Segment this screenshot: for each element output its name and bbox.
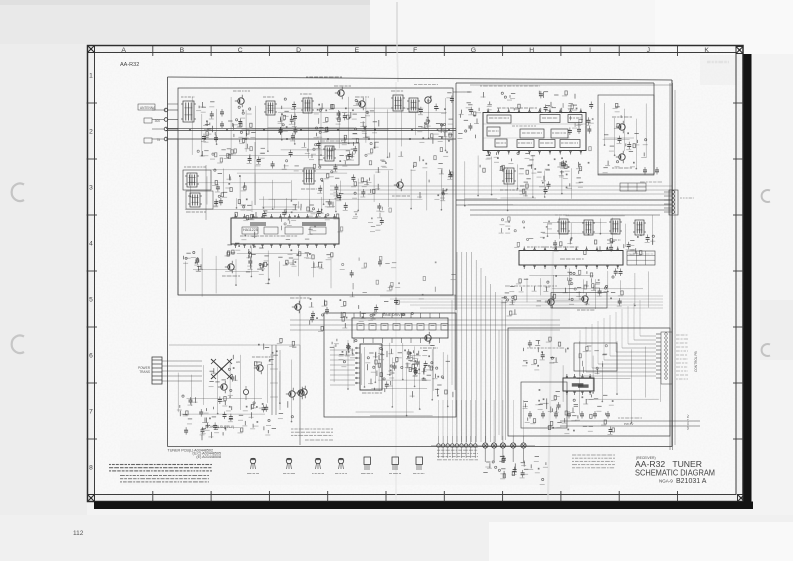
- transformer T106 AM bar: [183, 167, 211, 190]
- title AA-R32 TUNER: [635, 459, 702, 469]
- title NGA-9 B21031A: [659, 478, 707, 485]
- transformer T104: [391, 91, 405, 111]
- component cluster D3: [317, 164, 343, 201]
- warning note text: [109, 465, 212, 482]
- svg-text:6: 6: [89, 352, 93, 359]
- svg-text:8: 8: [89, 464, 93, 471]
- cluster AM IF left: [499, 217, 552, 248]
- cluster under line driver: [365, 346, 434, 378]
- transistor Q102: [334, 86, 351, 99]
- svg-text:K: K: [704, 47, 709, 54]
- bridge rectifier D401-D404: [209, 355, 241, 387]
- sheet label AA-R32: [120, 62, 139, 68]
- antenna input terminals: [144, 108, 178, 143]
- component cluster D3b: [351, 167, 380, 198]
- stage cluster 4: [314, 103, 341, 137]
- cluster below U201: [480, 152, 582, 174]
- wire fan to CN301: [380, 296, 663, 308]
- diode ring: [330, 339, 357, 367]
- IC U101 AM tuner: [231, 214, 339, 248]
- IF filter box FL101: [319, 141, 359, 165]
- transistor Q101: [233, 91, 250, 107]
- svg-text:3: 3: [89, 184, 93, 191]
- transformer T109: [500, 168, 518, 190]
- section wiring FM chain: [192, 97, 447, 159]
- section wiring line driver area: [362, 343, 445, 391]
- under-chain parts row: [197, 141, 448, 171]
- section wiring below U301: [527, 268, 648, 309]
- stage cluster 2: [228, 106, 256, 143]
- IC U201 function blocks: [483, 115, 586, 148]
- svg-text:D: D: [296, 47, 301, 54]
- svg-text:(POWER SUPPLY): (POWER SUPPLY): [205, 425, 234, 429]
- stage cluster 3: [278, 98, 298, 141]
- wire bundle right vertical: [670, 83, 675, 450]
- cluster D4 sparse: [340, 256, 456, 299]
- legend packages: [247, 457, 425, 474]
- wire bus group long mid: [330, 186, 672, 194]
- cluster above U201: [467, 91, 577, 114]
- transformer T102: [263, 97, 277, 115]
- cluster power1: [177, 389, 233, 435]
- AM tuning cluster: [212, 169, 247, 210]
- component cluster E5: [407, 349, 434, 373]
- vertical wires left of bundle: [452, 295, 455, 390]
- svg-text:AA-R32: AA-R32: [120, 62, 139, 68]
- cluster AM IF under: [552, 235, 655, 256]
- stage cluster 6: [356, 111, 379, 149]
- cluster F6 inner parts: [579, 345, 607, 375]
- cluster center mid: [359, 298, 414, 322]
- FM FRONT END label: [306, 77, 438, 85]
- component cluster F4: [501, 287, 517, 316]
- svg-text:HA11225: HA11225: [243, 228, 258, 232]
- filter capacitor C401: [243, 386, 248, 400]
- power supply section divider: [169, 345, 300, 445]
- cluster G6: [562, 395, 615, 435]
- svg-text:7: 7: [89, 408, 93, 415]
- IC U301 MPX: [519, 247, 623, 270]
- component cluster B3: [225, 232, 257, 258]
- cluster power4: [201, 412, 243, 441]
- sub box F6 inner: [574, 343, 617, 371]
- svg-text:CONTROL PB: CONTROL PB: [694, 351, 698, 372]
- transistor Q403: [286, 387, 304, 400]
- transformer T201: [555, 215, 570, 234]
- transistor Q105: [222, 261, 240, 276]
- cluster below U101: [249, 248, 333, 269]
- signal table G3: [620, 183, 646, 191]
- PW 8V label: [624, 422, 633, 426]
- FM front end section box: [178, 88, 453, 295]
- section wiring mid row: [185, 169, 442, 212]
- stage cluster 8: [438, 124, 453, 142]
- svg-text:B: B: [180, 47, 185, 54]
- section wiring detector: [464, 155, 572, 211]
- wire mid left drop: [168, 104, 256, 295]
- svg-text:SCHEMATIC DIAGRAM: SCHEMATIC DIAGRAM: [635, 468, 715, 478]
- vertical wires VR: [270, 345, 280, 415]
- transformer T103: [300, 94, 314, 113]
- section wiring above U101: [236, 196, 337, 213]
- control PB label: [694, 351, 698, 372]
- svg-text:2: 2: [89, 128, 93, 135]
- transistor Q108: [420, 332, 438, 348]
- svg-text:SP OUT 8V: SP OUT 8V: [686, 414, 690, 430]
- signal table right of U301: [627, 251, 655, 265]
- wire bus bottom pair: [560, 418, 700, 426]
- cluster E6b: [413, 361, 453, 397]
- svg-text:B21031 A: B21031 A: [676, 478, 707, 485]
- svg-text:H: H: [529, 47, 534, 54]
- cluster muting: [603, 103, 648, 172]
- svg-text:TRANS: TRANS: [139, 370, 150, 374]
- transistor Q401: [218, 381, 227, 393]
- cluster G6b: [523, 389, 562, 430]
- wire fan power: [162, 361, 202, 381]
- cluster F4 low: [568, 270, 602, 297]
- svg-text:J: J: [647, 47, 650, 54]
- sub box G6: [521, 382, 567, 428]
- note text FM position: [505, 285, 557, 287]
- stage cluster 5: [336, 99, 359, 145]
- wire bundle center vertical: [457, 252, 495, 442]
- FM IF section box: [456, 83, 654, 310]
- FM IF section label: [480, 85, 540, 87]
- capacitor row above U101: [232, 199, 339, 221]
- IC U201 FM IF: [483, 108, 586, 155]
- IC U501: [563, 374, 594, 395]
- svg-text:E: E: [355, 47, 360, 54]
- svg-text:112: 112: [73, 530, 84, 537]
- vertical label right edge: [686, 414, 690, 430]
- IC U402 vertical: [355, 344, 382, 393]
- legend TP label block: [437, 447, 478, 460]
- cluster power3: [255, 338, 297, 367]
- connector CN101 power: [138, 357, 162, 384]
- cluster power2: [238, 401, 293, 435]
- component cluster C3 low: [281, 211, 316, 239]
- connector CN201: [664, 190, 694, 215]
- antenna label box: [138, 104, 156, 110]
- component cluster E3: [411, 162, 454, 200]
- wire bundle right of center: [499, 300, 506, 440]
- note text block: [291, 429, 333, 440]
- title RECEIVER: [636, 456, 656, 460]
- capacitor C103: [220, 109, 224, 129]
- svg-text:(E) A03448508: (E) A03448508: [196, 455, 221, 459]
- transistor Q106: [392, 179, 410, 196]
- cluster meter right: [563, 102, 594, 151]
- cluster E6: [368, 352, 415, 398]
- muting section box: [598, 95, 654, 175]
- wire steps to CN301: [580, 300, 656, 376]
- wire bus FM chain lower: [166, 138, 456, 140]
- wire bus upper mid right: [456, 200, 672, 215]
- component cluster B3b: [246, 254, 270, 283]
- legend note right: [572, 455, 615, 468]
- wire bus group mid-low: [290, 320, 560, 330]
- transformer T101: [181, 97, 196, 122]
- svg-text:F: F: [413, 47, 417, 54]
- section wiring left AM: [186, 247, 332, 296]
- transistor Q109: [298, 386, 307, 398]
- stereo driver box: [551, 293, 607, 309]
- section wiring power: [178, 355, 292, 428]
- stage cluster 1: [196, 102, 218, 143]
- AM tuner section box: [300, 295, 456, 445]
- svg-text:4: 4: [89, 240, 93, 247]
- capacitor row G6: [528, 411, 610, 419]
- svg-text:ANTENNA: ANTENNA: [140, 106, 156, 110]
- transistor Q202: [612, 151, 632, 168]
- transistor Q402: [252, 357, 270, 374]
- cluster AM osc: [309, 298, 348, 331]
- IC U401 line driver: [352, 313, 448, 343]
- svg-text:NGA-9: NGA-9: [659, 479, 673, 484]
- transformer T105: [407, 98, 420, 112]
- stereo section box: [508, 328, 670, 436]
- capacitor pair F3: [640, 167, 662, 182]
- transformer T108: [301, 168, 317, 189]
- section wiring muting: [603, 103, 647, 169]
- wire drops to TPs: [439, 400, 524, 436]
- wire bus FM chain upper: [166, 128, 456, 131]
- svg-text:75: 75: [156, 138, 160, 142]
- test point and connector row: [431, 436, 535, 462]
- cluster below U301: [516, 268, 623, 306]
- tuner PCB text: [168, 448, 222, 459]
- title SCHEMATIC DIAGRAM: [635, 468, 715, 478]
- section wiring stereo: [563, 341, 661, 423]
- svg-text:A: A: [121, 47, 126, 54]
- svg-text:C: C: [238, 47, 243, 54]
- transformer T203: [607, 219, 622, 240]
- transistor Q301: [577, 293, 594, 310]
- transformer T107 AM osc: [186, 191, 213, 212]
- transistor Q302: [545, 296, 554, 308]
- cluster G5: [522, 337, 569, 370]
- legend connectors: [483, 455, 548, 484]
- tuner PCB boundary box: [168, 77, 673, 447]
- power supply label: [205, 425, 234, 429]
- transistor Q201: [612, 117, 632, 133]
- section wiring AM IF: [543, 215, 653, 247]
- svg-text:5: 5: [89, 296, 93, 303]
- transistor Q107: [290, 298, 310, 313]
- component cluster D2 low: [337, 202, 391, 232]
- stage cluster 7: [417, 93, 454, 144]
- connector CN301 control: [656, 332, 688, 384]
- component cluster F3b: [558, 160, 589, 188]
- wire bus y295: [178, 294, 456, 296]
- wire fan from U402: [330, 350, 355, 385]
- component cluster F3: [519, 158, 555, 196]
- wire top right link: [453, 85, 672, 92]
- svg-text:1: 1: [89, 72, 93, 79]
- transformer T202: [582, 220, 595, 235]
- component cluster E2 right: [457, 103, 479, 139]
- transformer T204: [633, 220, 646, 235]
- section wiring AM tuner: [334, 340, 449, 416]
- svg-text:I: I: [589, 47, 591, 54]
- transistor Q103: [355, 97, 369, 110]
- meter label: [527, 347, 564, 349]
- component cluster B2 low: [183, 251, 203, 271]
- svg-text:G: G: [471, 47, 476, 54]
